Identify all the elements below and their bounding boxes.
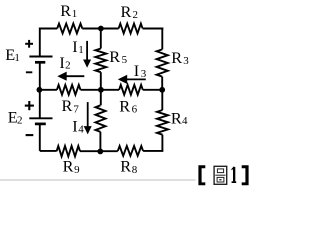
current arrow I1 (downward, left of R5) [86,41,88,61]
svg-text:R: R [171,108,182,127]
wire: E1 negative plate down to left-middle node [39,62,41,90]
wire: right edge, top-right corner down to R3 [161,28,163,50]
svg-text:1: 1 [72,8,78,20]
svg-text:3: 3 [141,68,147,80]
resistor R6 (horizontal, middle row right) [119,85,143,95]
caption character 圖 (figure) [214,166,227,184]
svg-text:1: 1 [14,52,20,64]
svg-text:9: 9 [74,164,80,176]
caption numeral 1 [232,167,235,181]
wire: R6 to right-middle node [143,89,163,91]
current arrow I2 (leftward, above R7) [65,75,84,77]
node: center-middle junction [98,87,104,93]
battery E2: short negative plate [35,123,46,126]
svg-text:R: R [120,157,131,176]
resistor (unlabeled, I4 branch, vertical below center node) [96,105,106,132]
faint horizontal rule at bottom of figure [0,179,196,181]
minus sign of E2 [26,134,34,136]
wire: R9 to bottom node [80,150,101,152]
minus sign of E1 [26,71,32,73]
svg-text:4: 4 [78,123,84,135]
svg-text:R: R [121,2,132,21]
battery E1: long positive plate [29,56,52,58]
wire: R4 down to bottom-right corner [161,135,163,151]
resistor R3 (vertical, right edge) [157,49,168,76]
svg-text:R: R [171,48,182,67]
svg-text:3: 3 [183,55,189,67]
svg-text:6: 6 [132,103,138,115]
wire: left edge, top-left corner down to battery E1 [39,28,41,56]
node: right-middle junction (R3/R4/R6) [159,87,165,93]
caption bracket 】 [242,165,249,185]
plus sign of E2 [25,105,34,107]
svg-text:5: 5 [122,54,128,66]
resistor R1 [57,24,82,34]
wire: center-middle node to R6 [101,89,119,91]
svg-text:1: 1 [78,44,84,56]
plus sign of E1 [25,43,33,45]
svg-text:7: 7 [73,103,79,115]
wire: left-middle node down to battery E2 [39,90,41,118]
resistor R4 (vertical, right edge) [157,110,168,135]
wire: top-left segment (top-left corner to R1) [40,28,57,30]
battery E1: short negative plate [35,61,45,64]
svg-text:R: R [62,96,73,115]
current arrow I3 (leftward, above R6) [126,78,146,80]
resistor R2 [119,24,143,34]
svg-text:R: R [119,96,130,115]
wire: right-middle node down to R4 [161,90,163,110]
wire: R5 down to center-middle node [100,72,102,90]
wire: I4-branch resistor down to bottom node [99,132,101,151]
wire: center-middle node down to I4-branch resistor [100,90,102,106]
svg-text:I: I [72,116,77,135]
node: left-middle junction (E1/E2/R7 wire) [37,87,43,93]
caption bracket 【 [198,165,205,185]
wire: top middle segment (R1 to R2 through top node) [82,28,118,30]
wire: R8 to bottom-right corner [143,150,163,152]
svg-text:R: R [63,157,74,176]
svg-text:I: I [72,37,77,56]
wire: bottom-left corner to R9 [40,150,57,152]
svg-text:I: I [134,61,139,80]
wire: R3 down to right-middle node [161,77,163,90]
svg-text:2: 2 [17,115,23,127]
wire: top-right segment (R2 to top-right corner) [143,28,164,30]
battery E2: long positive plate [29,117,52,119]
node: bottom junction of R9/R8 [97,149,103,155]
svg-text:2: 2 [65,60,71,72]
wire: middle row, left node to R7 [40,89,57,91]
wire: bottom node to R8 [101,150,118,152]
svg-text:I: I [59,53,64,72]
resistor R7 (horizontal, middle row left) [57,85,81,95]
svg-text:8: 8 [132,164,138,176]
resistor R5 (vertical, center column) [95,49,106,73]
svg-text:2: 2 [133,9,139,21]
current arrow I4 (downward, left of unlabeled resistor) [87,102,89,128]
svg-text:4: 4 [182,115,188,127]
wire: E2 negative plate down to bottom-left corner [39,124,41,151]
svg-text:R: R [109,47,120,66]
node: top junction of R1/R2/R5 branch [98,26,104,32]
wire: center column, top node down to R5 [100,29,102,49]
resistor R9 (horizontal, bottom row left) [57,146,80,156]
svg-text:R: R [60,1,71,20]
resistor R8 (horizontal, bottom row right) [118,146,143,156]
wire: R7 to center-middle node [81,89,101,91]
